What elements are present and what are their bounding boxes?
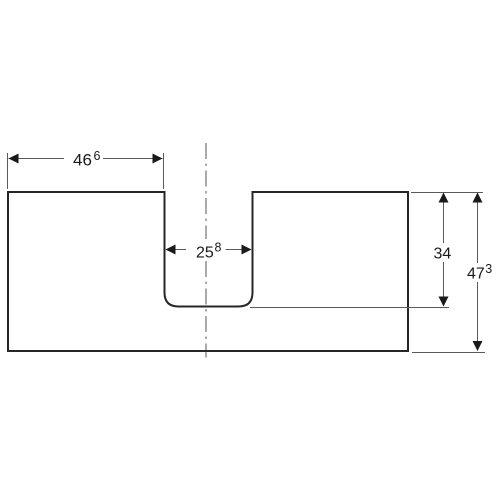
svg-text:8: 8 — [215, 241, 222, 255]
svg-text:6: 6 — [94, 149, 101, 163]
svg-text:34: 34 — [434, 246, 452, 263]
svg-text:3: 3 — [485, 262, 492, 276]
svg-text:25: 25 — [196, 245, 214, 262]
svg-text:46: 46 — [73, 151, 92, 170]
svg-text:47: 47 — [467, 266, 485, 283]
